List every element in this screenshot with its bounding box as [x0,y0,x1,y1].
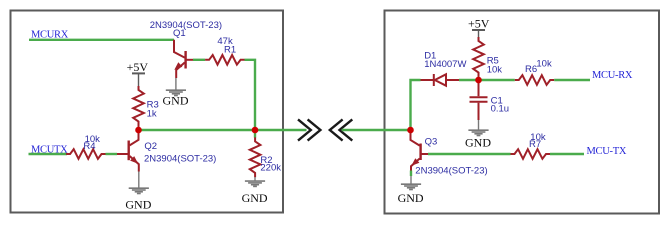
ground at Q2 emitter [129,172,149,194]
svg-text:GND: GND [398,191,424,205]
wire mid rail left box [139,129,307,131]
resistor R1 47k [205,55,245,65]
wire D1 to R5/C1 node [459,79,479,81]
wire R1 to mid rail [245,60,256,130]
chevrons into right box [330,119,353,140]
svg-text:MCU-TX: MCU-TX [587,146,627,157]
wire Q3 base to R7 [421,153,428,155]
svg-text:R6: R6 [525,64,537,75]
wire MCUTX net [29,153,68,155]
svg-text:2N3904(SOT-23): 2N3904(SOT-23) [144,154,216,165]
svg-text:GND: GND [163,94,189,108]
svg-text:1k: 1k [147,108,157,119]
wire up to diode row [411,80,421,130]
svg-text:Q1: Q1 [173,28,186,39]
svg-text:GND: GND [465,136,491,150]
junction R1 / R2 [252,127,259,134]
svg-text:+5V: +5V [127,60,149,74]
diode D1 1N4007W [421,74,460,86]
wire R7 to MCU-TX [550,153,584,155]
wire stub to R2 [254,130,256,138]
junction Q3 collector node [407,127,414,134]
svg-text:10k: 10k [487,64,503,75]
svg-text:R4: R4 [83,141,95,152]
svg-text:0.1u: 0.1u [491,103,510,114]
svg-text:10k: 10k [536,59,552,70]
svg-text:+5V: +5V [468,17,490,31]
left schematic box frame [11,11,284,213]
ground at C1 [468,120,488,136]
resistor R2 220k [250,137,261,177]
svg-text:2N3904(SOT-23): 2N3904(SOT-23) [150,20,222,31]
wire Q1 base to R1 [186,59,193,61]
svg-text:MCU-RX: MCU-RX [592,70,633,81]
svg-text:Q2: Q2 [144,141,157,152]
resistor R6 10k [515,75,554,85]
resistor R5 10k [473,37,484,78]
wire R4 to Q2 base [106,153,118,155]
svg-text:MCUTX: MCUTX [31,144,68,155]
svg-text:R1: R1 [224,45,236,56]
transistor Q3 2N3904 [411,130,421,171]
junction R3 / Q2 collector [135,127,142,134]
junction D1 / R5 / C1 / R6 [475,77,482,84]
svg-text:GND: GND [125,198,151,212]
svg-text:1N4007W: 1N4007W [424,59,466,70]
svg-text:GND: GND [242,191,268,205]
svg-text:Q3: Q3 [425,136,438,147]
ground at Q1 emitter [166,78,186,96]
svg-text:2N3904(SOT-23): 2N3904(SOT-23) [415,165,487,176]
chevrons out left box [298,119,320,140]
right schematic box frame [385,11,660,214]
svg-text:R7: R7 [529,139,541,150]
ground at R2 [245,177,265,186]
capacitor C1 0.1u [470,83,488,120]
resistor R3 1k [133,86,144,128]
svg-text:220k: 220k [260,163,281,174]
wire MCURX net [29,39,174,41]
wire R6 to MCU-RX [554,79,590,81]
resistor R4 10k [66,149,105,159]
wire node to R6 [479,79,515,81]
svg-text:MCURX: MCURX [31,30,69,41]
wire into right box mid rail [342,129,411,131]
ground at Q3 emitter [401,176,421,190]
wire Q3 emitter stub [410,171,412,177]
resistor R7 10k [511,149,551,159]
transistor Q2 2N3904 [129,130,139,172]
transistor Q1 2N3904 [174,40,186,78]
